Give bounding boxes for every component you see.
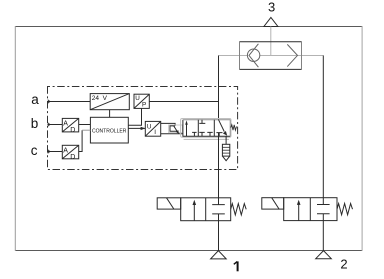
- svg-text:24 V: 24 V: [92, 95, 108, 102]
- U/P converter block: [134, 94, 149, 108]
- main valve pos2 blocked top port: [199, 120, 205, 124]
- svg-text:c: c: [31, 143, 38, 158]
- silencer: [222, 144, 229, 160]
- wire check valve internal: [240, 55, 302, 57]
- proportional solenoid halo: [169, 125, 183, 133]
- main valve gray body halo: [181, 119, 231, 138]
- A/D converter block b: [62, 118, 78, 134]
- pilot valve V3 solenoid: [157, 198, 181, 209]
- main valve underline gray: [184, 138, 229, 140]
- wire b A/D to controller: [79, 124, 91, 126]
- pilot valve V3 divider: [205, 198, 207, 221]
- pilot valve V3 blocked top port: [212, 198, 225, 205]
- port 1 exhaust triangle: [211, 251, 227, 259]
- wire check valve outlet: [302, 55, 324, 57]
- check valve V1 body: [240, 41, 302, 70]
- A/D converter block c: [62, 145, 78, 161]
- wire U/P to pilot line: [149, 101, 218, 103]
- electronics enclosure: [48, 87, 238, 170]
- wire c A/D to controller: [79, 130, 91, 151]
- svg-text:3: 3: [268, 0, 275, 15]
- main valve V2 body: [183, 120, 230, 137]
- svg-text:D: D: [70, 154, 75, 161]
- wire input a: [48, 100, 91, 104]
- pilot valve V4 blocked top port: [317, 198, 330, 205]
- U/I converter block: [145, 121, 160, 136]
- svg-text:A: A: [63, 148, 68, 155]
- wire main valve to silencer: [225, 136, 227, 144]
- pilot valve V3 flow arrow: [193, 200, 197, 221]
- proportional solenoid coil: [170, 126, 177, 131]
- pilot valve V4 divider: [309, 198, 311, 221]
- pilot valve V4 spring: [337, 204, 353, 215]
- wire 24V to controller: [109, 110, 111, 118]
- wire check valve inlet: [219, 55, 240, 57]
- main valve return spring: [231, 125, 237, 130]
- pilot valve V3 blocked bottom port: [212, 214, 225, 221]
- svg-text:P: P: [142, 101, 146, 108]
- proportional solenoid arrow: [174, 126, 179, 134]
- wire main valve port1 down: [218, 133, 220, 198]
- svg-text:b: b: [31, 116, 39, 131]
- svg-text:2: 2: [340, 256, 347, 271]
- check valve seat: [249, 44, 258, 67]
- pilot valve V4 blocked bottom port: [317, 214, 330, 221]
- wire working line vertical right: [322, 56, 324, 198]
- wire port3 drop: [270, 27, 272, 56]
- power supply 24V block: [90, 94, 129, 110]
- wire input b: [48, 123, 63, 127]
- svg-text:U: U: [135, 95, 140, 102]
- wire controller to U/I with arrow: [128, 127, 145, 130]
- svg-text:I: I: [154, 129, 156, 136]
- main valve pos3 exhaust arrow: [219, 120, 228, 136]
- port 3 exhaust triangle: [264, 17, 278, 26]
- wire pilot valve V3 to port1: [218, 221, 220, 251]
- check valve flow arrow: [287, 44, 297, 66]
- main valve pos1 blocked port: [192, 132, 197, 136]
- svg-text:CONTROLLER: CONTROLLER: [92, 128, 127, 134]
- pilot valve V3 body: [181, 198, 231, 221]
- svg-text:D: D: [70, 127, 75, 134]
- main valve pos2 blocked bottom port right: [207, 132, 212, 136]
- svg-text:a: a: [31, 92, 39, 107]
- svg-text:A: A: [63, 121, 68, 128]
- port 2 exhaust triangle: [316, 251, 332, 259]
- pilot valve V3 spring: [231, 204, 247, 215]
- main valve pos1 flow arrow: [185, 120, 188, 136]
- pilot valve V4 body: [284, 198, 337, 221]
- main valve pos3 blocked port: [216, 133, 222, 137]
- pilot valve V4 flow arrow: [297, 200, 301, 221]
- wire input c: [48, 150, 63, 154]
- wire pilot supply vertical: [218, 56, 220, 120]
- main valve cell divider 1: [197, 120, 199, 137]
- wire U/I top to solenoid: [161, 123, 175, 126]
- pilot valve V4 solenoid: [262, 198, 284, 209]
- controller block: [90, 117, 128, 143]
- frame border: [15, 26, 362, 251]
- wire U/I bottom to valve: [161, 133, 183, 135]
- main valve pos2 blocked bottom port left: [199, 132, 204, 136]
- check valve ball: [247, 49, 259, 61]
- main valve cell divider 2: [213, 120, 215, 137]
- wire pilot valve V4 to port2: [322, 221, 324, 251]
- node 1 label: [234, 261, 238, 271]
- svg-text:U: U: [147, 124, 152, 131]
- wire controller to U/P: [128, 108, 141, 125]
